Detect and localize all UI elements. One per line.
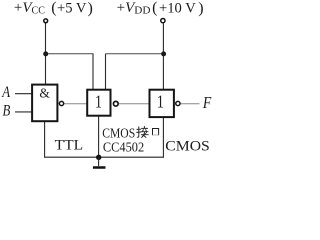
svg-text:): ): [88, 0, 93, 17]
svg-text:+5 V: +5 V: [57, 1, 87, 17]
svg-text:(: (: [152, 0, 157, 17]
svg-text:TTL: TTL: [55, 137, 84, 153]
svg-text:B: B: [3, 102, 11, 120]
svg-text:CC4502: CC4502: [103, 141, 144, 156]
svg-text:1: 1: [157, 93, 164, 112]
svg-text:A: A: [1, 84, 10, 102]
svg-text:CMOS: CMOS: [102, 126, 135, 141]
svg-text:CMOS: CMOS: [165, 138, 210, 154]
svg-text:1: 1: [95, 93, 102, 112]
svg-text:+10 V: +10 V: [159, 1, 196, 17]
svg-text:&: &: [39, 86, 50, 101]
svg-text:F: F: [202, 94, 212, 113]
svg-text:(: (: [51, 0, 56, 17]
svg-text:): ): [198, 0, 203, 17]
